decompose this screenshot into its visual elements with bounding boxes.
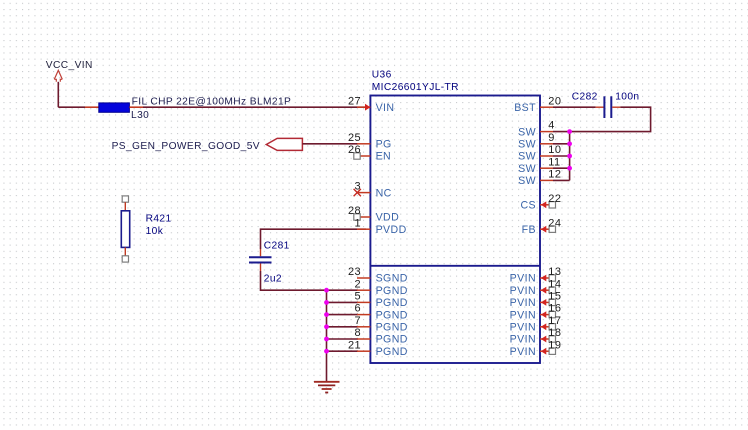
svg-text:14: 14 — [548, 278, 561, 290]
pin 5 PGND (left) — [354, 291, 407, 310]
svg-text:L30: L30 — [131, 110, 149, 121]
svg-text:26: 26 — [348, 144, 361, 156]
svg-text:PVIN: PVIN — [510, 285, 536, 297]
pin 2 PGND (left) — [354, 278, 407, 297]
junction SW bus row 4 — [567, 154, 572, 159]
resistor R421 terminal square top — [122, 196, 128, 202]
wire stub from L30 right — [129, 106, 143, 108]
pin 8 PGND (left) — [354, 327, 407, 346]
svg-text:11: 11 — [548, 156, 560, 168]
svg-text:16: 16 — [548, 303, 561, 315]
wire stub into L30 left — [85, 106, 99, 108]
pin 6 PGND (left) — [354, 303, 407, 322]
capacitor C281 stub bottom — [260, 264, 262, 272]
svg-text:15: 15 — [548, 291, 561, 303]
pin 11 SW (right) — [518, 156, 560, 175]
junction PGND bus row 16 — [324, 300, 329, 305]
svg-text:PVIN: PVIN — [510, 309, 536, 321]
svg-text:28: 28 — [348, 205, 361, 217]
capacitor C281 plates — [249, 257, 272, 262]
svg-text:12: 12 — [548, 169, 561, 181]
resistor R421 body — [121, 211, 129, 248]
pin 14 PVIN (right) — [510, 278, 562, 297]
svg-text:PGND: PGND — [376, 346, 408, 358]
wire SW branch row 5 — [553, 167, 570, 169]
svg-text:PGND: PGND — [376, 285, 408, 297]
svg-text:SW: SW — [518, 151, 536, 163]
resistor R421 terminal square bottom — [122, 256, 128, 262]
wire U36 PVDD to C281 top — [261, 229, 367, 249]
svg-text:BST: BST — [514, 102, 536, 114]
svg-text:10: 10 — [548, 144, 561, 156]
svg-text:PVIN: PVIN — [510, 322, 536, 334]
wire PGND branch row 17 — [327, 314, 359, 316]
pin 3 NC (left) — [354, 181, 392, 200]
wire U36 BST to C282 — [553, 106, 596, 108]
junction SW bus row 5 — [567, 166, 572, 171]
wire PGND branch row 20 — [327, 350, 359, 352]
svg-text:R421: R421 — [146, 214, 172, 225]
wire PGND branch row 19 — [327, 338, 359, 340]
junction PGND bus row 19 — [324, 337, 329, 342]
pin 9 SW (right) — [518, 132, 555, 151]
svg-text:EN: EN — [376, 151, 392, 163]
pin 23 SGND (left) — [348, 266, 408, 285]
svg-text:10k: 10k — [146, 226, 164, 237]
svg-text:23: 23 — [348, 266, 361, 278]
svg-text:FB: FB — [522, 224, 536, 236]
pin 17 PVIN (right) — [510, 315, 562, 334]
svg-text:PG: PG — [376, 139, 392, 151]
svg-text:2u2: 2u2 — [264, 274, 282, 285]
svg-text:PVIN: PVIN — [510, 273, 536, 285]
capacitor C282 stub right — [612, 106, 620, 108]
pin 26 EN (left) — [348, 144, 391, 163]
svg-text:25: 25 — [348, 132, 361, 144]
wire SW branch row 4 — [553, 155, 570, 157]
wire SW branch row 6 — [553, 179, 570, 181]
svg-text:4: 4 — [548, 120, 555, 132]
svg-text:PGND: PGND — [376, 309, 408, 321]
wire VCC_VIN to L30 — [58, 106, 85, 108]
junction SW bus row 2 — [567, 129, 572, 134]
pin 25 PG (left) — [348, 132, 392, 151]
svg-text:PVIN: PVIN — [510, 346, 536, 358]
wire SW branch row 3 — [553, 143, 570, 145]
inductor L30 ferrite bead — [99, 103, 130, 112]
junction PGND bus row 15 — [324, 288, 329, 293]
svg-text:24: 24 — [548, 217, 561, 229]
junction SW bus row 3 — [567, 141, 572, 146]
svg-text:1: 1 — [354, 217, 361, 229]
wire flag to PG pin — [302, 143, 358, 145]
svg-text:17: 17 — [548, 315, 561, 327]
svg-text:PVDD: PVDD — [376, 224, 407, 236]
svg-text:2: 2 — [354, 278, 361, 290]
svg-text:18: 18 — [548, 327, 561, 339]
svg-text:8: 8 — [354, 327, 361, 339]
pin 21 PGND (left) — [348, 339, 408, 358]
svg-text:5: 5 — [354, 291, 361, 303]
pin 4 SW (right) — [518, 120, 555, 139]
svg-text:9: 9 — [548, 132, 555, 144]
junction PGND bus row 20 — [324, 349, 329, 354]
pin 10 SW (right) — [518, 144, 561, 163]
wire PGND branch row 16 — [327, 301, 359, 303]
svg-text:21: 21 — [348, 339, 361, 351]
svg-text:SGND: SGND — [376, 273, 408, 285]
svg-text:13: 13 — [548, 266, 561, 278]
svg-text:3: 3 — [354, 181, 361, 193]
wire C281 bottom to PGND net — [261, 271, 359, 290]
power port VCC_VIN — [46, 60, 93, 82]
svg-text:20: 20 — [548, 95, 561, 107]
pin 19 PVIN (right) — [510, 339, 562, 358]
svg-text:PGND: PGND — [376, 334, 408, 346]
ground symbol — [314, 382, 340, 393]
pin 22 CS (right) — [520, 193, 561, 212]
sheet-entry flag PS_GEN_POWER_GOOD_5V — [266, 138, 302, 150]
op-amp / regulator U36 box — [370, 96, 540, 364]
pin 28 VDD (left) — [348, 205, 399, 224]
svg-text:MIC26601YJL-TR: MIC26601YJL-TR — [372, 82, 459, 93]
svg-text:VCC_VIN: VCC_VIN — [46, 60, 93, 71]
junction PGND bus row 17 — [324, 312, 329, 317]
svg-text:U36: U36 — [372, 69, 392, 80]
pin 1 PVDD (left) — [354, 217, 406, 236]
svg-text:27: 27 — [348, 95, 361, 107]
svg-text:PVIN: PVIN — [510, 297, 536, 309]
capacitor C281 stub top — [260, 249, 262, 256]
svg-text:22: 22 — [548, 193, 561, 205]
wire PGND bus vertical — [326, 290, 328, 382]
svg-text:CS: CS — [520, 200, 536, 212]
wire VCC_VIN vertical — [57, 82, 59, 107]
svg-text:19: 19 — [548, 339, 561, 351]
pin 12 SW (right) — [518, 169, 561, 188]
svg-text:7: 7 — [354, 315, 361, 327]
wire SW branch row 2 — [553, 131, 570, 133]
svg-text:SW: SW — [518, 139, 536, 151]
pin 18 PVIN (right) — [510, 327, 562, 346]
svg-text:PGND: PGND — [376, 297, 408, 309]
pin 15 PVIN (right) — [510, 291, 562, 310]
svg-text:NC: NC — [376, 187, 392, 199]
svg-text:C281: C281 — [264, 240, 290, 251]
pin 27 VIN (left) — [348, 95, 395, 114]
pin 24 FB (right) — [522, 217, 562, 236]
resistor R421 stub bottom — [124, 247, 126, 255]
pin 20 BST (right) — [514, 95, 561, 114]
wire L30 to U36 VIN — [143, 106, 366, 108]
svg-text:PS_GEN_POWER_GOOD_5V: PS_GEN_POWER_GOOD_5V — [112, 141, 260, 152]
capacitor C282 stub left — [596, 106, 604, 108]
svg-text:VDD: VDD — [376, 212, 400, 224]
pin 7 PGND (left) — [354, 315, 407, 334]
junction PGND bus row 18 — [324, 324, 329, 329]
svg-text:SW: SW — [518, 126, 536, 138]
svg-text:FIL CHP 22E@100MHz BLM21P: FIL CHP 22E@100MHz BLM21P — [132, 97, 292, 108]
wire PGND branch row 18 — [327, 326, 359, 328]
svg-text:100n: 100n — [615, 91, 639, 102]
U36 internal divider — [370, 265, 540, 267]
svg-text:SW: SW — [518, 163, 536, 175]
svg-text:6: 6 — [354, 303, 361, 315]
wire SW bus vertical — [569, 132, 571, 181]
svg-text:VIN: VIN — [376, 102, 395, 114]
svg-text:C282: C282 — [572, 91, 598, 102]
wire C282 right down to SW net — [570, 107, 651, 131]
svg-text:PGND: PGND — [376, 322, 408, 334]
capacitor C282 plates — [604, 96, 611, 118]
resistor R421 stub top — [124, 202, 126, 211]
pin 13 PVIN (right) — [510, 266, 562, 285]
pin 16 PVIN (right) — [510, 303, 562, 322]
svg-text:SW: SW — [518, 175, 536, 187]
svg-text:PVIN: PVIN — [510, 334, 536, 346]
